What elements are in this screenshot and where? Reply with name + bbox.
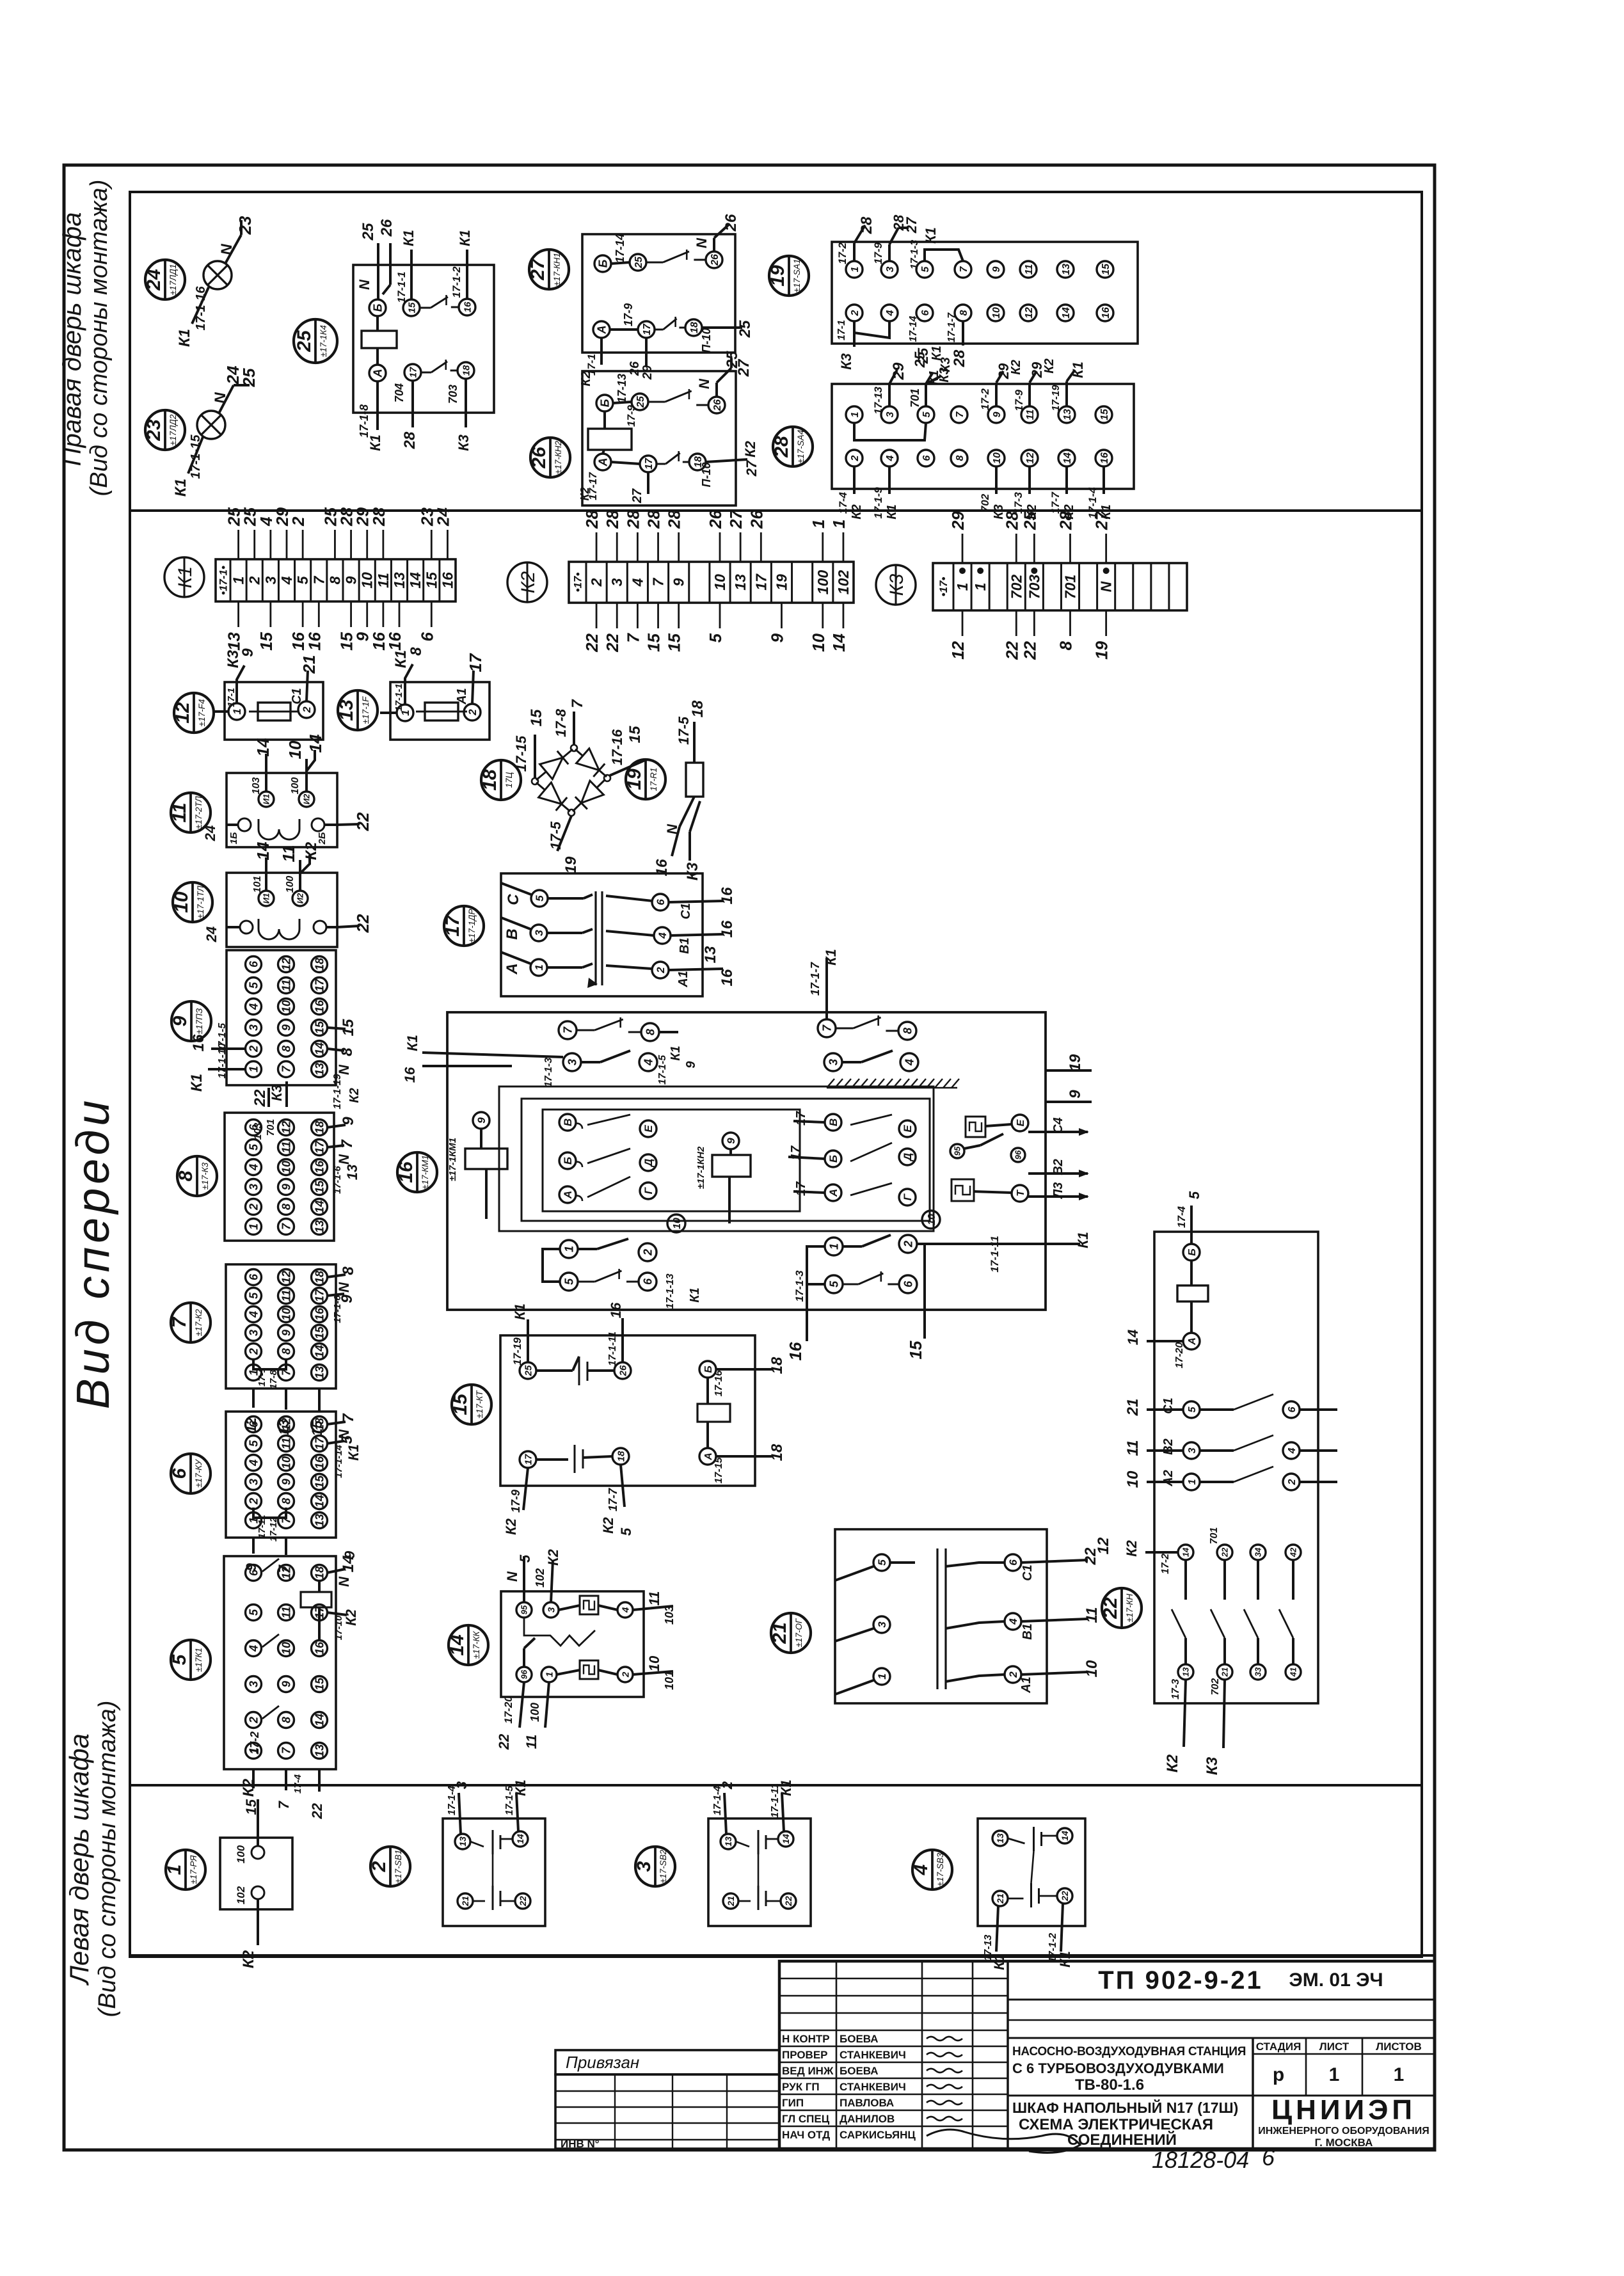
svg-text:6: 6 [921,455,932,461]
svg-text:6: 6 [920,310,931,315]
svg-text:П-10: П-10 [700,463,713,488]
svg-text:Н КОНТР: Н КОНТР [782,2033,830,2045]
svg-text:А: А [1187,1337,1198,1346]
svg-text:±17-SВ3: ±17-SВ3 [935,1852,945,1886]
svg-text:±17-1КМ1: ±17-1КМ1 [447,1138,458,1181]
svg-text:11: 11 [1124,1440,1142,1456]
svg-text:6: 6 [1262,2144,1275,2170]
svg-text:Правая дверь шкафа: Правая дверь шкафа [58,212,86,466]
svg-text:7: 7 [820,1024,833,1031]
svg-text:9: 9 [343,576,360,584]
svg-text:19: 19 [1092,641,1111,659]
svg-text:17-1-2: 17-1-2 [450,266,463,298]
panel 16 pulse element bottom [951,1179,1028,1202]
contactor 22 power contacts [1124,1394,1337,1490]
svg-text:16: 16 [190,1034,207,1051]
diode bridge 18 (17C) designator [479,760,521,800]
svg-text:СТАНКЕВИЧ: СТАНКЕВИЧ [840,2081,906,2093]
svg-text:1: 1 [247,1066,260,1072]
svg-text:16: 16 [1099,452,1110,464]
svg-text:10: 10 [712,574,728,591]
svg-text:17-7: 17-7 [1049,491,1062,514]
svg-text:N: N [504,1571,520,1582]
svg-text:13: 13 [1181,1667,1191,1676]
svg-text:14: 14 [306,734,325,752]
svg-text:17: 17 [313,1436,326,1450]
svg-text:13: 13 [313,1220,326,1233]
block 6 (±17-КУ) designator [169,1454,211,1493]
svg-text:12: 12 [1095,1537,1112,1554]
svg-text:17: 17 [408,367,418,378]
svg-text:11: 11 [280,1607,292,1619]
svg-text:К1: К1 [367,434,383,451]
svg-text:25: 25 [736,320,754,338]
svg-text:К1: К1 [513,1779,529,1796]
svg-text:101: 101 [663,1671,676,1690]
svg-text:3: 3 [247,1024,260,1031]
wires of diode bridge 18 [513,699,645,851]
svg-text:К2: К2 [545,1548,561,1566]
svg-text:10: 10 [280,1456,292,1469]
svg-text:703: 703 [1026,575,1042,600]
svg-text:22: 22 [251,1089,269,1107]
privyazan box [555,2050,779,2150]
svg-text:13: 13 [313,1366,326,1379]
svg-text:26: 26 [628,361,642,376]
svg-text:18128-04: 18128-04 [1152,2147,1249,2173]
svg-text:П-10: П-10 [700,328,713,353]
svg-text:(Вид со стороны монтажа): (Вид со стороны монтажа) [94,1701,121,2017]
svg-text:13: 13 [391,572,408,589]
wires of reactor 17 [562,856,736,986]
reactor 17 body [501,873,703,996]
svg-text:9: 9 [340,1117,357,1126]
title block separator line [130,1954,1435,1957]
svg-text:12: 12 [280,1418,292,1431]
svg-text:±17-2ТЛ: ±17-2ТЛ [194,796,203,829]
svg-text:5: 5 [169,1653,190,1665]
svg-text:С1: С1 [679,903,693,919]
svg-text:4: 4 [247,1311,260,1318]
svg-text:704: 704 [393,383,406,402]
svg-text:А: А [562,1191,574,1199]
svg-text:11: 11 [280,980,292,992]
svg-text:17-1-9: 17-1-9 [872,487,884,519]
svg-text:18: 18 [313,1271,326,1284]
svg-text:9: 9 [1067,1090,1084,1099]
contactor 22 aux contacts [1124,1527,1301,1680]
svg-text:5: 5 [921,411,932,417]
svg-text:28: 28 [858,216,875,234]
svg-text:25: 25 [294,330,315,353]
svg-text:К3: К3 [1204,1756,1221,1775]
svg-text:17-9: 17-9 [1013,389,1025,411]
svg-text:17-1-6: 17-1-6 [332,1166,343,1194]
svg-text:А: А [595,326,608,335]
panel 16 coil KM1 [447,1112,507,1219]
reactor 17 (17-1DR) designator [442,906,484,946]
svg-text:17-1-11: 17-1-11 [989,1236,1001,1272]
svg-text:1: 1 [230,577,247,585]
panel 16 coil KN2 [696,1133,751,1223]
svg-text:10: 10 [171,891,192,913]
svg-text:17-2: 17-2 [836,242,848,264]
svg-text:11: 11 [280,1438,292,1450]
svg-text:13: 13 [336,699,357,721]
svg-text:Г: Г [642,1186,655,1194]
panel 16 circle 10 left [667,1214,685,1232]
svg-text:17-10: 17-10 [333,1615,344,1640]
svg-text:4: 4 [1007,1618,1019,1625]
svg-text:16: 16 [786,1342,805,1360]
svg-text:±17-SА4: ±17-SА4 [796,430,806,463]
svg-text:13: 13 [732,574,749,591]
svg-text:К1: К1 [669,1046,683,1060]
svg-text:17-1-7: 17-1-7 [946,312,957,342]
transformer 10 body [227,873,337,947]
svg-text:ВЕД ИНЖ: ВЕД ИНЖ [782,2065,834,2077]
svg-text:102: 102 [534,1568,546,1588]
svg-text:102: 102 [835,570,852,595]
svg-text:8: 8 [340,1266,357,1275]
svg-text:2: 2 [641,1249,654,1256]
svg-text:8: 8 [326,576,343,584]
svg-text:К3: К3 [886,574,907,596]
svg-text:17-1-6: 17-1-6 [332,1295,343,1323]
svg-text:•17-1•: •17-1• [218,566,230,595]
relay 27 body [582,234,735,353]
svg-text:17-5: 17-5 [548,821,564,850]
svg-text:5: 5 [618,1527,634,1536]
panel 16 top-right contact pair 3-4 [824,1051,918,1071]
svg-text:17-3: 17-3 [1170,1679,1181,1699]
svg-text:24: 24 [202,825,218,841]
svg-text:1: 1 [876,1673,888,1679]
svg-text:В1: В1 [678,937,692,954]
svg-text:16: 16 [385,632,404,650]
svg-text:4: 4 [642,1059,655,1066]
svg-text:17-5: 17-5 [676,716,692,745]
svg-text:ИНВ N°: ИНВ N° [561,2138,600,2150]
svg-text:11: 11 [375,573,392,588]
wires of relay block 5 [243,1550,359,1819]
panel 16 top-left contact pair 7-8 [559,1017,659,1041]
svg-text:22: 22 [603,633,622,652]
svg-text:12: 12 [172,702,193,724]
svg-text:2: 2 [289,516,308,527]
svg-text:28: 28 [771,436,792,458]
svg-text:К1: К1 [404,1035,420,1051]
svg-text:К3: К3 [269,1085,285,1101]
svg-text:1: 1 [850,411,861,417]
svg-text:17: 17 [466,653,485,672]
switch block 28 body [832,384,1134,489]
svg-text:21: 21 [299,655,319,674]
svg-text:25: 25 [360,223,377,241]
svg-text:28: 28 [1056,511,1076,530]
svg-text:10: 10 [280,1308,292,1321]
svg-text:25: 25 [1020,511,1039,530]
divider top band / middle band [130,509,1422,512]
svg-text:±17-1F: ±17-1F [361,696,370,724]
svg-text:2: 2 [247,1498,260,1505]
svg-text:К2: К2 [850,504,864,519]
divider middle band / bottom band [130,1784,1422,1787]
svg-text:К2: К2 [600,1516,616,1534]
svg-text:28: 28 [401,431,418,449]
svg-text:7: 7 [340,1413,357,1422]
block 5 (±17К1) designator [169,1640,211,1680]
svg-text:16: 16 [719,887,736,904]
svg-text:В: В [827,1118,840,1126]
svg-text:14: 14 [1125,1330,1141,1345]
svg-text:СТАНКЕВИЧ: СТАНКЕВИЧ [840,2049,906,2061]
svg-text:5: 5 [1187,1406,1198,1412]
svg-text:18: 18 [313,1566,326,1579]
svg-text:2: 2 [655,967,667,974]
svg-text:8: 8 [280,1204,292,1210]
svg-text:4: 4 [1287,1447,1298,1454]
motor feeder 21 body [835,1529,1047,1703]
svg-text:17-15: 17-15 [513,735,529,772]
svg-text:9: 9 [280,1681,292,1687]
svg-text:А2: А2 [1161,1470,1175,1487]
svg-text:А: А [504,963,521,975]
svg-text:±17-ОГ: ±17-ОГ [794,1618,804,1647]
svg-text:34: 34 [1254,1547,1263,1557]
svg-text:9: 9 [280,1024,292,1031]
svg-text:К2: К2 [240,1778,257,1797]
svg-text:8: 8 [280,1717,292,1723]
svg-text:К2: К2 [1164,1754,1181,1772]
svg-text:3: 3 [247,1184,260,1190]
svg-text:10: 10 [280,1642,292,1655]
svg-text:2: 2 [1007,1671,1019,1678]
svg-text:±17-SВ2: ±17-SВ2 [658,1849,668,1883]
block 7 (±17-К2) body [226,1264,336,1389]
svg-text:1: 1 [1394,2064,1405,2085]
svg-text:1: 1 [829,520,848,529]
svg-text:42: 42 [1289,1547,1298,1557]
panel 16 wire routing rectangles [499,1086,934,1231]
svg-text:17-9: 17-9 [509,1490,522,1513]
svg-text:100: 100 [529,1703,541,1722]
wires of relay 26 [578,351,760,504]
svg-text:28: 28 [603,510,622,529]
svg-text:17: 17 [752,573,769,591]
svg-text:25: 25 [915,347,931,364]
svg-text:17-1-4: 17-1-4 [712,1786,723,1815]
svg-text:22: 22 [1002,641,1021,660]
svg-text:6: 6 [247,960,260,967]
svg-text:6: 6 [247,1421,260,1428]
svg-text:24: 24 [203,927,219,943]
svg-text:2: 2 [850,455,861,461]
svg-text:N: N [336,1154,352,1165]
push button 4 (±17-SВ3) designator [911,1850,952,1890]
svg-text:22: 22 [1060,1891,1070,1902]
svg-text:702: 702 [979,493,991,512]
svg-text:26: 26 [747,510,766,529]
svg-text:8: 8 [338,1047,356,1056]
svg-text:БОЕВА: БОЕВА [840,2033,879,2045]
svg-text:10: 10 [991,307,1002,319]
svg-text:11: 11 [1025,410,1036,420]
svg-text:17: 17 [644,458,655,470]
svg-text:7: 7 [650,577,667,586]
svg-text:1: 1 [1187,1479,1198,1484]
svg-text:А: А [827,1189,840,1197]
svg-text:9: 9 [991,266,1002,272]
svg-text:17-1-5: 17-1-5 [657,1054,668,1085]
svg-text:3: 3 [566,1059,578,1065]
svg-text:14: 14 [407,572,424,589]
svg-text:А: А [596,458,609,467]
svg-text:1: 1 [809,520,828,529]
svg-text:(Вид со стороны монтажа): (Вид со стороны монтажа) [86,180,113,497]
title block signature table [779,1961,1080,2153]
svg-text:К3: К3 [937,367,951,382]
svg-text:1: 1 [247,1223,260,1230]
svg-text:ГЛ СПЕЦ: ГЛ СПЕЦ [782,2113,830,2125]
svg-text:13: 13 [313,1063,326,1076]
svg-text:15: 15 [313,1180,326,1193]
svg-text:В2: В2 [1051,1159,1065,1175]
push button 2 body [443,1818,545,1926]
panel 16 left entry wires [402,1032,698,1087]
svg-text:К2: К2 [303,841,320,860]
svg-text:2: 2 [301,706,313,713]
svg-text:К1: К1 [1075,1232,1091,1248]
svg-text:14: 14 [447,1634,468,1656]
svg-text:7: 7 [561,1026,574,1033]
svg-text:18: 18 [313,958,326,971]
block 5 (±17К1) body [224,1556,336,1769]
title block main frame [779,1961,1435,2149]
fuse 13 body [380,682,490,740]
svg-text:6: 6 [417,632,436,641]
terminal strip К1 designator [164,557,204,597]
svg-text:2: 2 [247,1046,260,1053]
svg-text:1Б: 1Б [228,832,239,844]
wires of relay 15 [503,1302,786,1536]
svg-text:Б: Б [703,1365,714,1373]
svg-text:4: 4 [903,1059,916,1066]
svg-text:4: 4 [885,310,896,316]
svg-text:К1: К1 [401,230,417,246]
svg-text:В1: В1 [1021,1623,1035,1640]
svg-text:17: 17 [313,1140,326,1154]
wires of lamp 24 [176,216,255,347]
svg-text:10: 10 [809,633,828,651]
svg-text:4: 4 [657,932,669,939]
svg-text:701: 701 [266,1119,276,1136]
wires of motor feeder 21 [1021,1537,1112,1677]
transformer 11 (17-2TL) designator [169,793,211,832]
inner drawing frame [130,192,1422,1957]
svg-text:15: 15 [906,1341,925,1359]
svg-text:8: 8 [644,1029,657,1035]
svg-text:Б: Б [1187,1248,1198,1255]
svg-text:2: 2 [588,578,605,587]
svg-text:2: 2 [247,1717,260,1724]
svg-text:3: 3 [247,1681,260,1687]
wires of push button 2 [447,1779,529,1834]
svg-text:А1: А1 [1019,1676,1033,1694]
svg-text:±17-КН: ±17-КН [1125,1593,1134,1622]
relay 26 body [582,371,736,505]
svg-text:3: 3 [454,1781,470,1789]
svg-text:4: 4 [911,1864,932,1875]
svg-text:702: 702 [1210,1678,1221,1696]
svg-text:17-1-14: 17-1-14 [333,1444,344,1477]
fuse 12 body [214,682,323,740]
svg-text:8: 8 [175,1170,196,1181]
svg-text:9: 9 [475,1117,488,1124]
svg-text:8: 8 [955,455,966,461]
test block 9 (17PZ) designator [170,1001,211,1041]
svg-text:17: 17 [794,1111,808,1126]
svg-text:±17К1: ±17К1 [194,1648,203,1672]
svg-text:102: 102 [235,1886,247,1904]
svg-text:18: 18 [689,322,700,333]
svg-text:16: 16 [313,999,326,1013]
thermal relay 14 body [501,1591,644,1697]
svg-text:10: 10 [359,572,376,589]
svg-text:9: 9 [239,648,257,657]
lamp 23 (17LD2) designator [143,410,185,450]
svg-text:12: 12 [280,1566,292,1579]
svg-text:13: 13 [313,1744,326,1757]
svg-text:±17-КТ: ±17-КТ [475,1390,484,1419]
svg-text:5: 5 [827,1280,840,1287]
svg-text:Вид спереди: Вид спереди [68,1097,119,1410]
svg-text:16: 16 [402,1067,418,1083]
svg-text:8: 8 [408,647,425,656]
svg-text:14: 14 [1181,1547,1191,1557]
svg-text:12: 12 [280,1121,292,1134]
svg-text:17-9: 17-9 [625,404,637,427]
svg-text:17-2: 17-2 [248,1731,261,1755]
svg-text:5: 5 [294,575,311,584]
svg-text:17: 17 [523,1454,534,1465]
svg-text:12: 12 [280,958,292,971]
svg-text:РУК ГП: РУК ГП [782,2081,820,2093]
svg-text:7: 7 [959,266,969,272]
svg-text:САРКИСЬЯНЦ: САРКИСЬЯНЦ [840,2129,916,2141]
svg-text:К1: К1 [923,227,939,244]
svg-text:7: 7 [280,1223,292,1230]
wires of switch block 28 [837,346,1113,519]
push button 3 (±17-SВ2) designator [633,1847,675,1886]
svg-text:21: 21 [769,1622,790,1644]
svg-text:7: 7 [338,1139,356,1149]
svg-text:7: 7 [169,1316,190,1328]
svg-text:5: 5 [247,982,260,989]
svg-text:16: 16 [313,1641,326,1655]
svg-text:27: 27 [735,358,752,377]
svg-text:5: 5 [706,633,725,642]
title block organization [1258,2094,1429,2149]
svg-text:2: 2 [719,1781,735,1790]
svg-text:2: 2 [850,310,861,316]
svg-text:10: 10 [927,1214,937,1225]
svg-text:9: 9 [684,1061,698,1069]
panel 16 hatch [827,1079,959,1088]
svg-text:10: 10 [1083,1660,1101,1677]
svg-text:21: 21 [1220,1667,1230,1677]
svg-text:17-14: 17-14 [614,234,626,263]
